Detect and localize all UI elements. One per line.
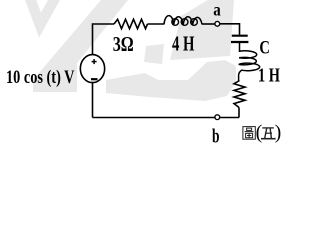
bottom rail [93, 117, 240, 119]
svg-text:a: a [213, 0, 221, 19]
wire top rail left segment [93, 24, 115, 55]
svg-text:3Ω: 3Ω [113, 32, 134, 56]
capacitor C plate 2 [231, 41, 248, 43]
resistor R 3ohm [114, 19, 148, 28]
wire between R and L [148, 23, 165, 25]
svg-text:): ) [275, 122, 282, 144]
capacitor C plate 1 [232, 35, 248, 37]
watermark slanted stroke left [33, 0, 128, 92]
inductor L 4H [164, 16, 202, 25]
watermark big right stroke [170, 0, 234, 60]
svg-text:1 H: 1 H [258, 65, 280, 86]
source plus [92, 61, 97, 63]
wire L to node a [202, 23, 215, 25]
node b [215, 115, 220, 120]
source minus [91, 78, 98, 80]
inductor 1H vertical (with leads) [239, 43, 260, 81]
left rail lower [92, 83, 94, 118]
svg-text:(: ( [256, 122, 263, 144]
svg-text:4 H: 4 H [172, 32, 195, 56]
watermark small quad [144, 44, 164, 64]
watermark chevron top-left [28, 0, 59, 25]
resistor vertical (right branch) [234, 81, 245, 108]
figure caption glyph tu [243, 127, 255, 140]
glyph wu (five) [261, 128, 276, 139]
node a [215, 21, 220, 26]
svg-text:C: C [259, 38, 270, 59]
watermark bottom band [106, 60, 236, 101]
source V1 circle [80, 55, 104, 83]
svg-text:10 cos (t) V: 10 cos (t) V [6, 68, 75, 88]
wire resistor to bottom rail [238, 108, 240, 118]
svg-text:b: b [212, 126, 220, 148]
wire node a to cap [220, 24, 240, 35]
